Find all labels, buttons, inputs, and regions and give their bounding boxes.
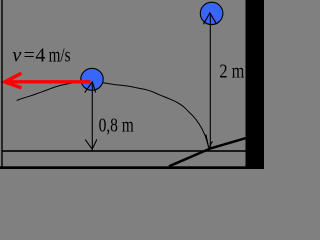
- ball A (left, at apex, blue): [81, 68, 103, 90]
- trajectory arrowhead at impact point: [206, 135, 213, 149]
- right black band: [246, 0, 265, 169]
- svg-text:2 m: 2 m: [219, 60, 244, 82]
- inclined ramp: [169, 138, 246, 166]
- ball B (upper right, blue): [200, 2, 223, 24]
- svg-text:0,8 m: 0,8 m: [99, 115, 135, 137]
- trajectory curve of bouncing ball: [17, 82, 209, 149]
- height measurement line 2 m: [209, 13, 211, 148]
- arrowhead down at ground: [85, 139, 97, 149]
- arrowhead up inside ball B: [203, 13, 216, 24]
- left border line: [1, 0, 2, 169]
- velocity arrow shaft (red): [8, 80, 90, 83]
- ground line: [3, 150, 246, 152]
- height measurement line 0,8 m: [91, 82, 93, 150]
- arrowhead up inside ball A: [85, 82, 96, 93]
- bottom black band: [0, 166, 264, 169]
- velocity arrowhead (red): [5, 73, 22, 88]
- svg-text:v=4m/s: v=4m/s: [12, 44, 70, 66]
